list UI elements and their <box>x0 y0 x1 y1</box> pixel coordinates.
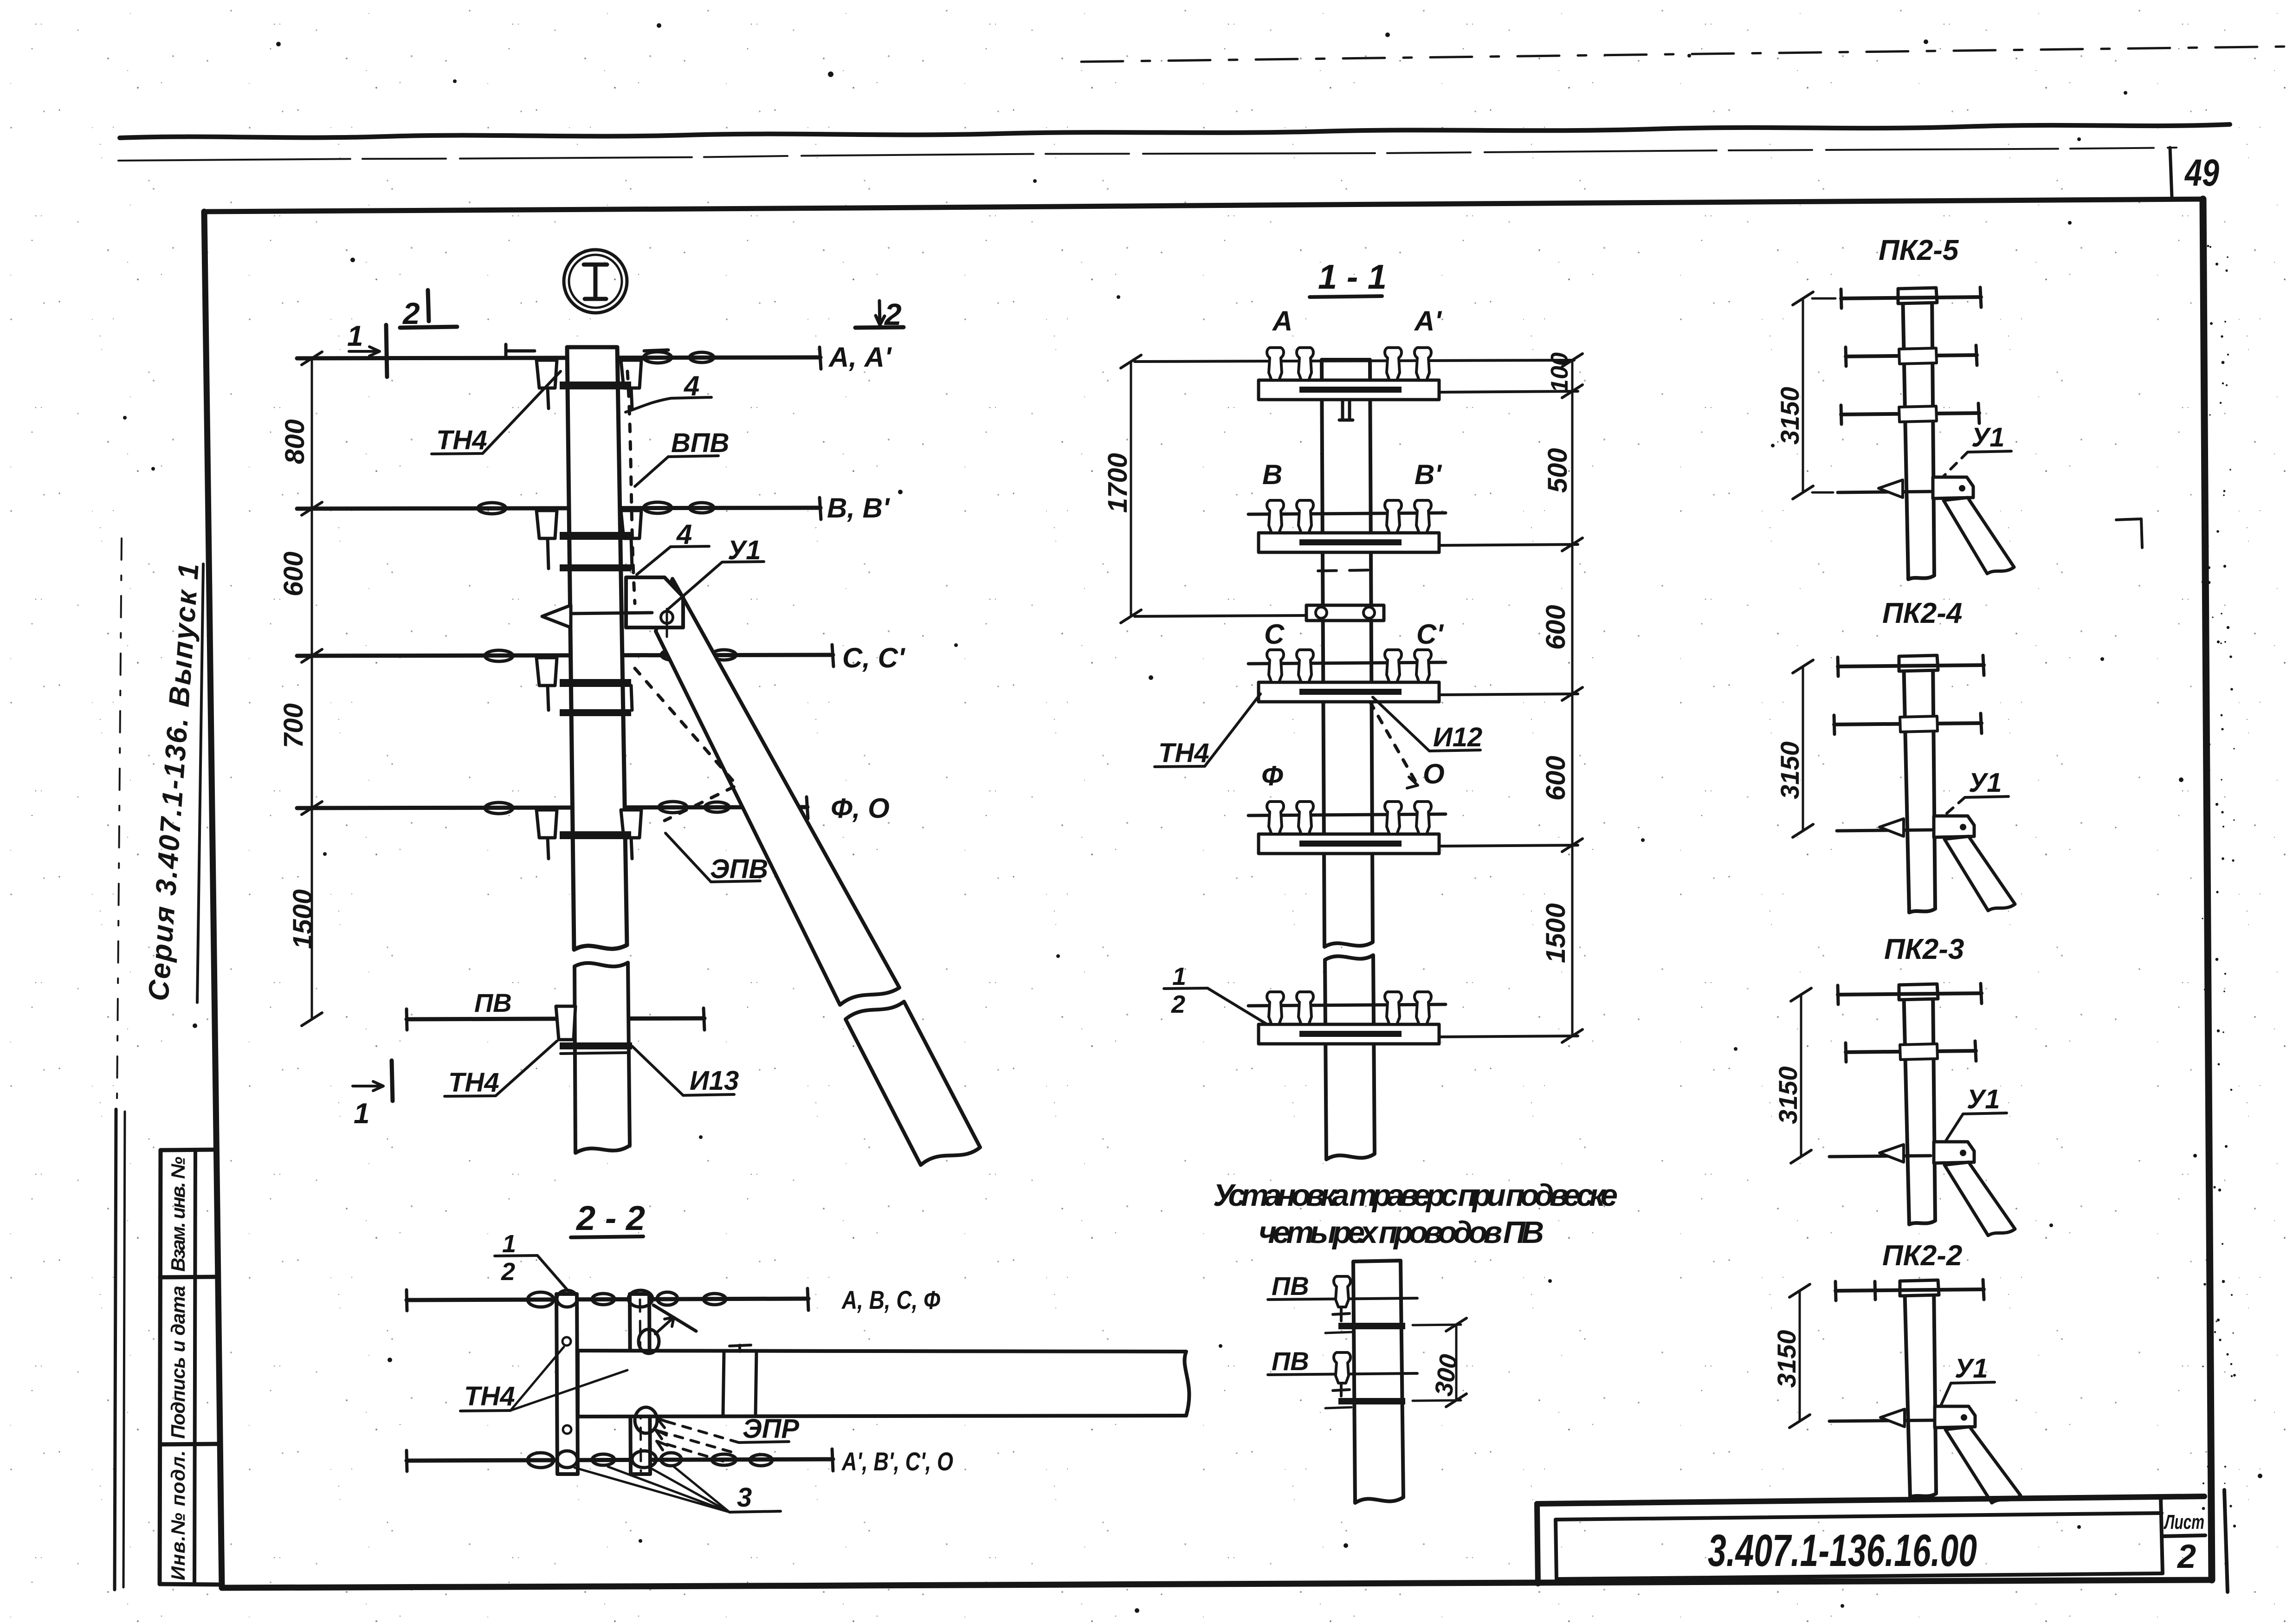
row F insulators <box>1267 802 1284 834</box>
wire F,O <box>297 807 807 808</box>
svg-text:А, А': А, А' <box>828 342 892 373</box>
clamp 2 PK2-5 <box>1899 348 1937 364</box>
svg-text:четырех проводов ПВ: четырех проводов ПВ <box>1259 1215 1544 1250</box>
row F extension to dim <box>1439 845 1578 846</box>
dim line 3150 PK2-4 <box>1802 666 1804 831</box>
list header divider <box>2162 1535 2205 1536</box>
svg-text:ВПВ: ВПВ <box>671 428 730 458</box>
right dim ticks <box>1562 354 1582 1042</box>
row PV wire <box>1248 1004 1446 1006</box>
svg-text:ПВ: ПВ <box>1272 1271 1309 1300</box>
svg-text:С, С': С, С' <box>842 642 905 673</box>
svg-text:1500: 1500 <box>288 889 318 949</box>
pole cap PK2-2 <box>1900 1280 1939 1296</box>
svg-text:2: 2 <box>2177 1538 2196 1575</box>
svg-text:С': С' <box>1416 619 1444 650</box>
svg-text:В, В': В, В' <box>827 492 890 524</box>
clamp band lower <box>1338 1398 1405 1404</box>
top thick wavy scan line <box>120 124 2230 138</box>
series label underline <box>197 564 203 1003</box>
stray hook mark <box>2116 519 2142 548</box>
bolt under bar A <box>1339 400 1353 420</box>
svg-text:С: С <box>1264 619 1285 650</box>
bracket PK2-4 <box>1934 816 1974 837</box>
wire 1 PK2-2 <box>1835 1289 1984 1291</box>
dim 300 <box>1413 1325 1461 1401</box>
dashed tie wire down pole <box>627 371 635 603</box>
view marker circle I <box>564 250 627 313</box>
svg-text:И12: И12 <box>1433 722 1482 752</box>
frame bottom border <box>222 1580 2210 1588</box>
title block inner bottom <box>1557 1573 2163 1579</box>
strut break <box>846 1002 980 1165</box>
traverse B row: insulators and band <box>536 511 641 571</box>
dim tick C <box>302 649 322 662</box>
view marker letter I <box>584 265 607 299</box>
top dash-dot scan line (right half) <box>1081 46 2293 62</box>
wire A,B,C,F <box>407 1299 808 1300</box>
page number tick <box>2170 148 2172 197</box>
svg-text:В': В' <box>1415 459 1442 490</box>
bracket line PK2-2 <box>1829 1420 1933 1421</box>
svg-text:У1: У1 <box>1971 422 2005 453</box>
svg-text:ПВ: ПВ <box>474 988 512 1017</box>
strut PK2-2 <box>1945 1427 2021 1503</box>
row C traverse <box>1259 682 1439 702</box>
row B insulators <box>1267 500 1284 533</box>
pole mid break <box>575 963 630 1153</box>
pole upper section <box>567 347 627 950</box>
clamp 2 PK2-3 <box>1900 1044 1938 1060</box>
svg-text:Подпись и дата: Подпись и дата <box>167 1286 189 1439</box>
title block outer top <box>1537 1496 2204 1504</box>
svg-text:ЭПР: ЭПР <box>743 1414 799 1444</box>
svg-text:800: 800 <box>280 419 310 464</box>
row PV insulators <box>1267 992 1284 1024</box>
traverse F row: insulators and band <box>536 810 641 859</box>
wire 4 (bracket line) PK2-5 <box>1838 492 1931 492</box>
svg-text:Инв.№ подл.: Инв.№ подл. <box>167 1450 189 1580</box>
wire clamps 2-2 top <box>528 1292 554 1307</box>
strut PK2-3 <box>1944 1162 2015 1236</box>
svg-text:700: 700 <box>278 703 309 748</box>
bracket PK2-3 <box>1934 1142 1974 1163</box>
pole plan view (2-2) <box>578 1351 1189 1417</box>
eye bolt below right channel <box>635 1407 657 1433</box>
svg-text:3150: 3150 <box>1773 1066 1802 1124</box>
row F traverse <box>1259 834 1439 854</box>
svg-text:О: О <box>1423 758 1445 789</box>
bracket rod <box>569 613 652 614</box>
insulator PV upper <box>1334 1276 1350 1307</box>
traverse C row: insulators and band <box>536 658 632 716</box>
svg-text:Установка траверс при подвеске: Установка траверс при подвеске <box>1213 1178 1618 1213</box>
small pole <box>1353 1261 1403 1503</box>
clamp 3 PK2-5 <box>1899 406 1937 422</box>
svg-text:300: 300 <box>1429 1352 1463 1398</box>
bracket line PK2-3 <box>1829 1156 1931 1157</box>
row F wire <box>1248 814 1446 815</box>
wire PV <box>407 1018 704 1019</box>
pole PK2-4 <box>1904 660 1935 912</box>
svg-text:1700: 1700 <box>1103 453 1133 513</box>
right dim line <box>1571 360 1574 1036</box>
row A wire/extension line <box>1135 360 1574 362</box>
svg-text:600: 600 <box>278 551 309 596</box>
bolt plate on pole (2-2) <box>723 1352 756 1416</box>
row C extension to dim <box>1439 694 1578 695</box>
row B traverse <box>1259 533 1439 552</box>
row PV extension to dim <box>1439 1036 1578 1037</box>
svg-text:ПК2-2: ПК2-2 <box>1882 1240 1962 1272</box>
traverse A row: insulators and band <box>506 344 668 408</box>
svg-text:И13: И13 <box>690 1066 739 1096</box>
strut upper part <box>656 579 899 1005</box>
GROUP: right column PK poles <box>1772 234 2021 1503</box>
svg-text:ПВ: ПВ <box>1272 1346 1309 1376</box>
side table outline <box>161 1150 214 1150</box>
row C wire <box>1248 662 1446 664</box>
row B extension to dim <box>1439 544 1578 545</box>
svg-text:1500: 1500 <box>1541 903 1571 963</box>
svg-text:ТН4: ТН4 <box>448 1068 499 1098</box>
clamp 2 PK2-4 <box>1900 716 1938 732</box>
svg-text:2 - 2: 2 - 2 <box>575 1199 645 1237</box>
dim line 3150 PK2-5 <box>1802 298 1804 492</box>
svg-text:У1: У1 <box>1955 1353 1988 1384</box>
wire 2 PK2-3 <box>1846 1051 1976 1052</box>
svg-text:Взам. инв. №: Взам. инв. № <box>167 1157 189 1272</box>
svg-text:А': А' <box>1414 305 1442 336</box>
svg-text:2: 2 <box>501 1258 515 1286</box>
list column divider <box>2161 1497 2163 1573</box>
bracket line PK2-4 <box>1837 830 1931 831</box>
dim line 3150 PK2-3 <box>1800 995 1802 1157</box>
bracket PK2-5 <box>1933 477 1973 498</box>
row A insulators <box>1267 348 1284 380</box>
guy link 2-2 <box>653 1305 696 1331</box>
pole centerline dashes <box>1318 570 1376 571</box>
second thin scan line <box>118 148 2177 161</box>
pole PK2-5 <box>1903 292 1934 579</box>
pole cap PK2-5 <box>1898 288 1937 304</box>
svg-text:3: 3 <box>737 1482 752 1513</box>
bracket bolt <box>661 611 673 623</box>
GROUP: note text and PV pole <box>1213 1178 1618 1503</box>
bracket PK2-2 <box>1935 1406 1975 1428</box>
svg-text:А: А <box>1272 305 1292 336</box>
wire 1 PK2-3 <box>1838 993 1982 995</box>
wire A link ellipses <box>644 352 672 363</box>
svg-text:600: 600 <box>1541 756 1571 801</box>
clamp extension left <box>1135 615 1306 616</box>
svg-text:В: В <box>1262 459 1282 490</box>
bracket U1 <box>626 577 683 628</box>
mid clamp bar <box>1306 605 1384 621</box>
svg-text:У1: У1 <box>1967 1084 2000 1114</box>
pole PK2-3 <box>1904 989 1935 1224</box>
pole 1-1 upper <box>1322 360 1373 947</box>
GROUP: title block <box>1537 1496 2205 1584</box>
side table row divider 2 <box>160 1444 217 1444</box>
wire clamps 2-2 bottom <box>528 1453 554 1468</box>
wire 1 PK2-5 <box>1841 297 1981 298</box>
dim tick A <box>302 352 322 365</box>
wire A,A' <box>297 357 820 358</box>
svg-text:3150: 3150 <box>1775 741 1804 799</box>
svg-text:А', В', С', О: А', В', С', О <box>841 1447 953 1476</box>
svg-text:100: 100 <box>1546 352 1573 393</box>
svg-text:ПК2-5: ПК2-5 <box>1879 234 1959 266</box>
clamp band upper <box>1338 1323 1405 1329</box>
dim tick B <box>302 502 322 515</box>
svg-text:1: 1 <box>502 1230 516 1258</box>
svg-text:600: 600 <box>1541 605 1571 650</box>
strut PK2-5 <box>1944 498 2014 574</box>
left dim line 1700 <box>1130 362 1132 616</box>
frame top border <box>204 199 2203 212</box>
title block outer left <box>1537 1504 1538 1584</box>
dim tick F <box>302 802 322 815</box>
strut PK2-4 <box>1944 836 2015 911</box>
wire 3 PK2-5 <box>1841 413 1979 414</box>
side table row divider 1 <box>160 1277 216 1277</box>
right page scan edge <box>2202 245 2236 1532</box>
svg-text:А, В, С, Ф: А, В, С, Ф <box>841 1285 940 1314</box>
svg-text:3150: 3150 <box>1775 387 1804 445</box>
svg-text:ТН4: ТН4 <box>436 425 487 455</box>
svg-text:У1: У1 <box>1969 768 2002 798</box>
wire 1 PK2-4 <box>1838 665 1984 666</box>
svg-text:Ф: Ф <box>1261 760 1283 791</box>
frame right border <box>2203 199 2212 1580</box>
dashed leader I12 to O <box>1370 702 1418 785</box>
pole PK2-2 <box>1905 1285 1936 1497</box>
svg-text:1 - 1: 1 - 1 <box>1318 258 1387 296</box>
PV row: insulator and clamp I13 <box>556 1006 632 1054</box>
svg-text:1: 1 <box>354 1098 369 1130</box>
svg-text:ПК2-3: ПК2-3 <box>1884 933 1964 965</box>
pole 1-1 lower <box>1325 955 1375 1159</box>
wire B,B' <box>297 508 820 509</box>
GROUP: frame and side tables <box>142 199 2212 1588</box>
GROUP: main elevation view <box>278 250 1189 1513</box>
dimension line (left column) <box>311 358 313 1019</box>
svg-text:2: 2 <box>1171 990 1185 1018</box>
row PV traverse <box>1259 1024 1439 1044</box>
wire C,C' <box>297 655 833 656</box>
row B wire <box>1248 513 1446 514</box>
dashed tie wire to F row <box>635 668 737 821</box>
wire 2 PK2-5 <box>1846 355 1977 356</box>
insulator PV lower <box>1334 1352 1350 1383</box>
wire 2 PK2-4 <box>1834 723 1982 725</box>
dim tick PV <box>302 1013 322 1026</box>
left page scan edge double line <box>115 1109 116 1590</box>
svg-text:1: 1 <box>1172 963 1186 990</box>
pole cap PK2-3 <box>1899 984 1938 1000</box>
svg-text:3.407.1-136.16.00: 3.407.1-136.16.00 <box>1708 1525 1977 1576</box>
title block inner top <box>1556 1513 2162 1520</box>
svg-text:ТН4: ТН4 <box>1158 738 1209 768</box>
traverse channel left (2-2) <box>556 1294 578 1474</box>
left page scan edge dashed <box>117 538 122 1105</box>
title block inner left <box>1556 1520 1557 1579</box>
wire A',B',C',O <box>407 1459 833 1461</box>
row A extension to dim <box>1439 391 1578 392</box>
svg-text:Лист: Лист <box>2164 1511 2204 1533</box>
bracket left flag <box>542 605 571 628</box>
frame left border <box>204 212 222 1586</box>
svg-text:1: 1 <box>347 320 363 352</box>
traverse channel right (2-2) <box>630 1294 650 1474</box>
pole cap PK2-4 <box>1899 655 1938 671</box>
row A traverse <box>1259 380 1439 400</box>
svg-text:ТН4: ТН4 <box>464 1381 515 1411</box>
svg-text:Ф, О: Ф, О <box>831 793 890 824</box>
row C insulators <box>1267 650 1284 682</box>
dim line 3150 PK2-2 <box>1799 1291 1801 1421</box>
svg-text:ПК2-4: ПК2-4 <box>1882 597 1962 629</box>
svg-text:49: 49 <box>2184 152 2219 194</box>
svg-text:3150: 3150 <box>1772 1330 1801 1388</box>
svg-text:500: 500 <box>1543 448 1573 493</box>
